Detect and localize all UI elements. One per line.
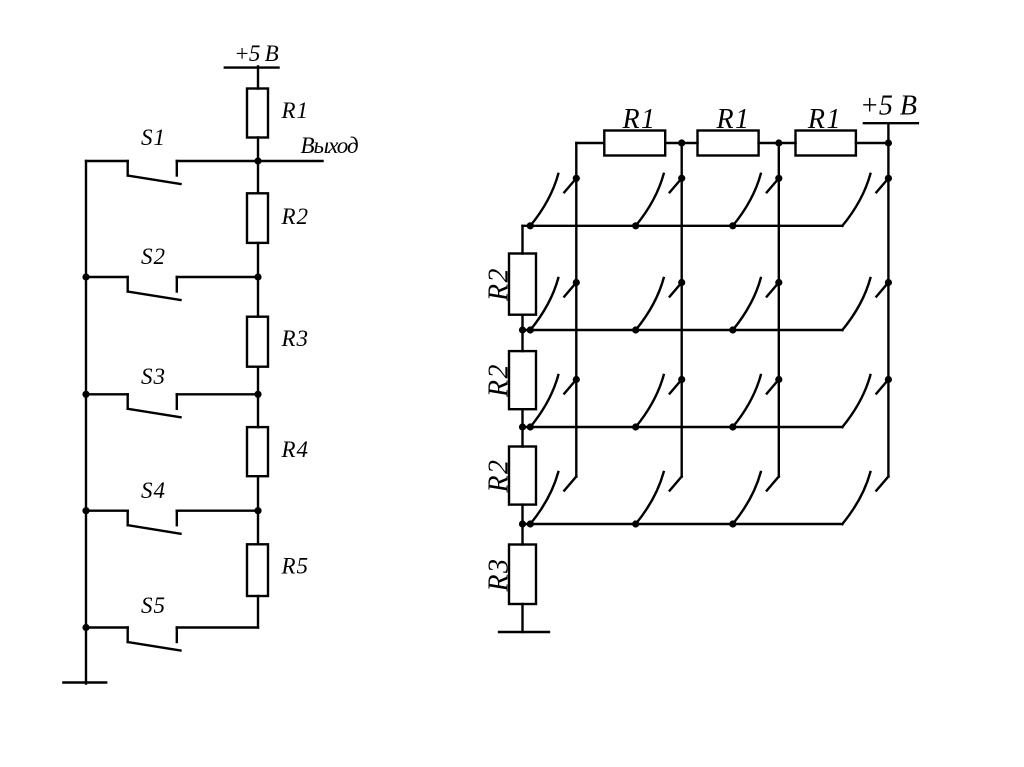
svg-text:Выход: Выход [301,133,358,158]
svg-text:S1: S1 [141,125,166,150]
svg-text:R1: R1 [807,104,842,135]
svg-text:S5: S5 [141,593,166,618]
svg-text:R2: R2 [484,363,515,398]
svg-text:R5: R5 [281,554,310,579]
svg-text:+5 В: +5 В [234,41,279,66]
svg-text:S3: S3 [141,364,166,389]
svg-text:R2: R2 [484,458,515,493]
svg-text:S2: S2 [141,244,166,269]
svg-text:R1: R1 [281,98,310,123]
svg-text:S4: S4 [141,478,166,503]
svg-text:+5 В: +5 В [860,91,917,122]
svg-text:R3: R3 [281,326,310,351]
svg-text:R3: R3 [484,557,515,592]
svg-text:R4: R4 [281,437,310,462]
svg-text:R1: R1 [621,104,656,135]
svg-text:R2: R2 [484,267,515,302]
svg-text:R2: R2 [281,204,310,229]
svg-text:R1: R1 [715,104,750,135]
